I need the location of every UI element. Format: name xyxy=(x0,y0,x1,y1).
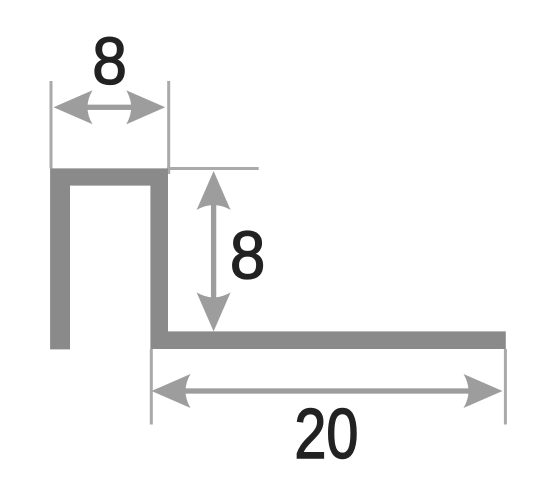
svg-text:8: 8 xyxy=(92,23,127,99)
svg-text:8: 8 xyxy=(230,217,265,293)
svg-text:20: 20 xyxy=(294,395,358,474)
